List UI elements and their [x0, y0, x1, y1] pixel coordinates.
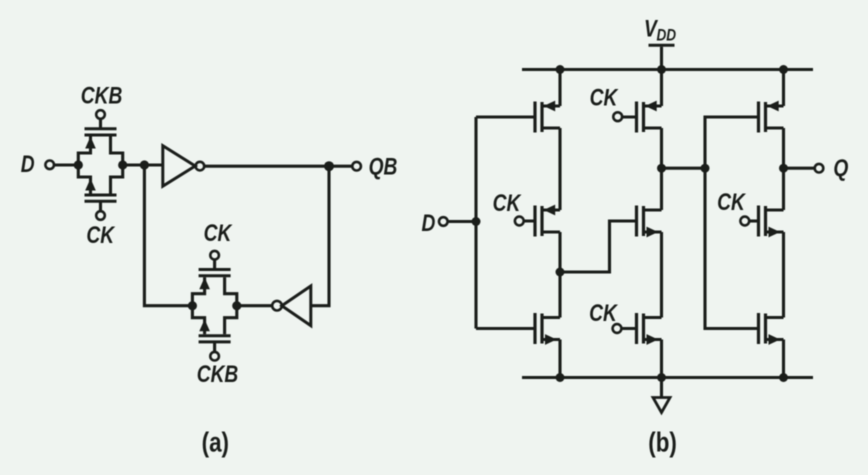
svg-text:CK: CK	[589, 299, 618, 327]
svg-text:(b): (b)	[648, 427, 677, 458]
svg-text:CKB: CKB	[197, 360, 239, 388]
svg-text:CK: CK	[493, 189, 522, 217]
svg-text:DD: DD	[657, 26, 677, 45]
svg-text:CK: CK	[204, 219, 233, 247]
svg-text:CK: CK	[86, 221, 115, 249]
svg-text:(a): (a)	[202, 427, 229, 458]
svg-text:CK: CK	[717, 188, 746, 216]
svg-text:CKB: CKB	[81, 81, 123, 109]
svg-text:QB: QB	[369, 152, 398, 180]
svg-text:CK: CK	[590, 83, 619, 111]
svg-text:D: D	[421, 209, 435, 237]
svg-text:D: D	[21, 150, 35, 178]
svg-text:Q: Q	[833, 154, 848, 182]
